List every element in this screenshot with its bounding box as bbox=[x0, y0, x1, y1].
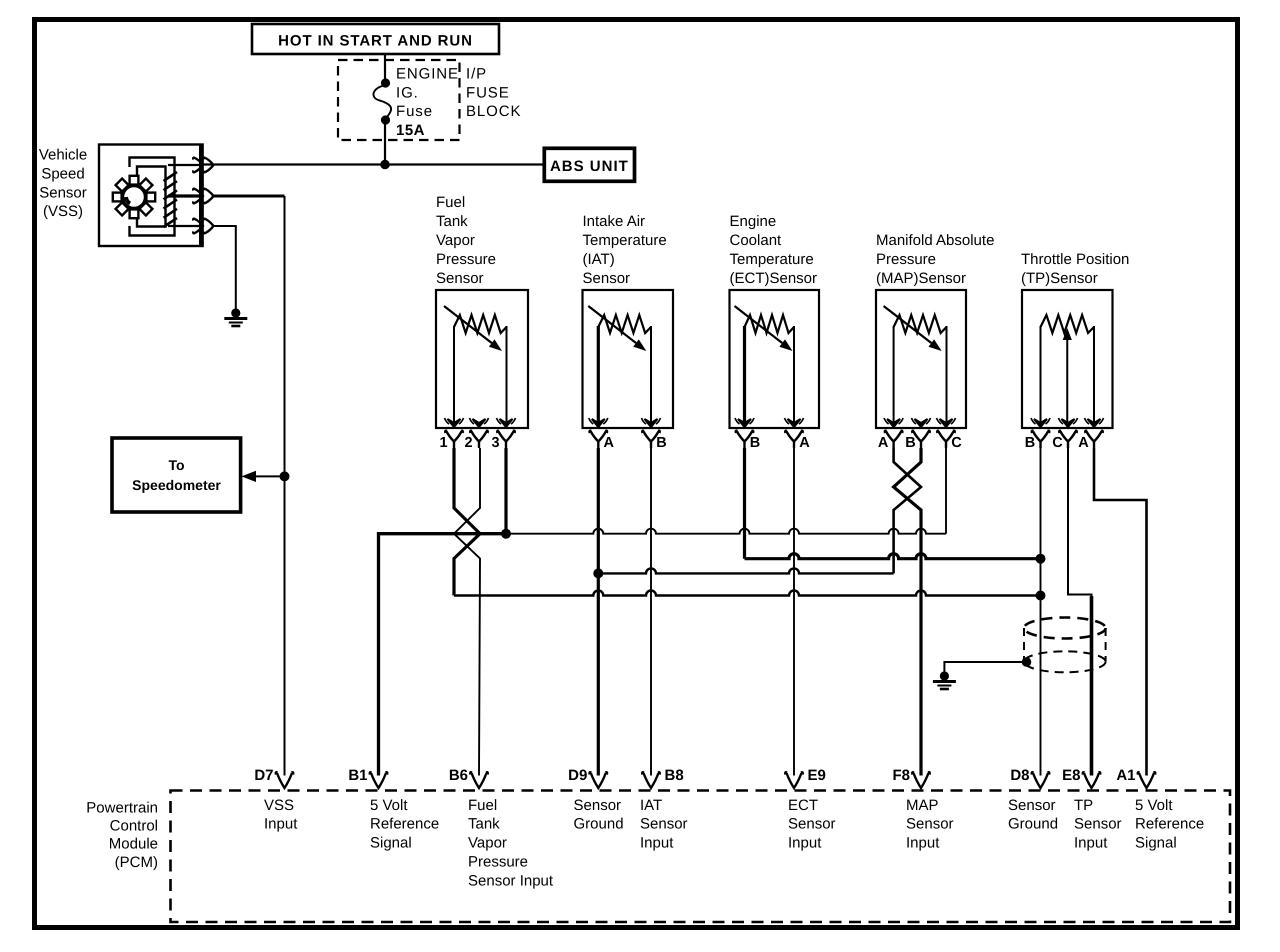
wire IAT pin B to PCM B8 bbox=[650, 448, 652, 776]
svg-text:HOT IN START AND RUN: HOT IN START AND RUN bbox=[278, 32, 473, 49]
svg-text:Engine: Engine bbox=[730, 213, 777, 230]
svg-text:5 Volt: 5 Volt bbox=[370, 797, 408, 814]
shield around TP wires bbox=[1024, 618, 1106, 639]
wire MAP pin B twisted to PCM F8 bbox=[894, 448, 921, 776]
svg-text:ABS UNIT: ABS UNIT bbox=[550, 158, 629, 175]
ground G2 (shield) bbox=[940, 671, 949, 680]
svg-text:Ground: Ground bbox=[1008, 816, 1058, 833]
wire from HOT box to fuse bbox=[384, 54, 386, 81]
manifold absolute pressure (MAP) sensor resistor element bbox=[894, 315, 947, 333]
intake air temperature (IAT) sensor resistor element bbox=[598, 315, 651, 333]
engine coolant temperature (ECT) sensor wiper arrow bbox=[735, 306, 783, 343]
manifold absolute pressure (MAP) sensor box bbox=[876, 290, 966, 428]
svg-text:Control: Control bbox=[110, 818, 158, 835]
wire shield to ground bbox=[944, 662, 1026, 673]
svg-text:Input: Input bbox=[264, 816, 298, 833]
To Speedometer box bbox=[112, 438, 241, 512]
wire IAT pin A to PCM D9 sensor ground bbox=[597, 448, 600, 776]
svg-text:Input: Input bbox=[1074, 835, 1108, 852]
throttle position (TP) sensor wiper arrow bbox=[1066, 340, 1068, 427]
manifold absolute pressure (MAP) sensor wiper arrow bbox=[884, 306, 932, 343]
node shield drain bbox=[1022, 657, 1032, 667]
intake air temperature (IAT) sensor pin connectors bbox=[592, 419, 605, 427]
wire VSS pin3 to ground bbox=[214, 226, 236, 310]
svg-text:BLOCK: BLOCK bbox=[466, 103, 521, 120]
svg-text:Temperature: Temperature bbox=[583, 232, 667, 249]
svg-text:B: B bbox=[656, 435, 666, 451]
PCM pin D9 connector bbox=[590, 772, 608, 788]
svg-text:I/P: I/P bbox=[466, 66, 487, 83]
powertrain control module (PCM) dashed box bbox=[171, 791, 1231, 923]
svg-text:Sensor: Sensor bbox=[788, 816, 836, 833]
svg-text:B6: B6 bbox=[449, 767, 468, 784]
svg-text:Sensor: Sensor bbox=[583, 270, 631, 287]
engine coolant temperature (ECT) sensor resistor element bbox=[745, 315, 795, 333]
svg-text:Reference: Reference bbox=[370, 816, 439, 833]
svg-text:Ground: Ground bbox=[574, 816, 624, 833]
svg-text:B: B bbox=[1025, 435, 1035, 451]
svg-text:Signal: Signal bbox=[1135, 835, 1177, 852]
wire PCM B1 5 volt reference (bold) bbox=[379, 534, 507, 776]
vehicle speed sensor (VSS) bbox=[99, 145, 203, 247]
svg-text:Sensor: Sensor bbox=[436, 270, 484, 287]
intake air temperature (IAT) sensor wiper arrow bbox=[588, 306, 636, 343]
svg-text:Signal: Signal bbox=[370, 835, 412, 852]
svg-text:Temperature: Temperature bbox=[730, 251, 814, 268]
junction node on VSS wire bbox=[280, 471, 290, 481]
svg-text:Sensor: Sensor bbox=[574, 797, 622, 814]
PCM pin E9 connector bbox=[785, 772, 803, 788]
svg-text:Pressure: Pressure bbox=[468, 854, 528, 871]
engine coolant temperature (ECT) sensor pin connectors bbox=[738, 419, 751, 427]
svg-text:Sensor: Sensor bbox=[1074, 816, 1122, 833]
throttle position (TP) sensor resistor element bbox=[1041, 315, 1095, 333]
svg-text:Input: Input bbox=[788, 835, 822, 852]
svg-text:Input: Input bbox=[906, 835, 940, 852]
PCM pin A1 connector bbox=[1138, 772, 1156, 788]
wire fuel pin3 (5V ref) bbox=[504, 448, 507, 534]
wire fuel pin1 twisted to ground line bbox=[454, 448, 480, 596]
svg-text:F8: F8 bbox=[892, 767, 910, 784]
svg-text:(VSS): (VSS) bbox=[43, 203, 83, 220]
fuel tank vapor pressure sensor pin connectors bbox=[448, 419, 461, 427]
svg-text:Fuel: Fuel bbox=[436, 194, 465, 211]
svg-text:15A: 15A bbox=[396, 122, 425, 139]
svg-text:ENGINE: ENGINE bbox=[396, 66, 459, 83]
PCM pin F8 connector bbox=[912, 772, 930, 788]
arrow into speedometer bbox=[255, 475, 285, 477]
wire fuel ground line to TP-B bbox=[454, 591, 1041, 596]
node IAT A ground junction bbox=[593, 568, 603, 578]
svg-text:A: A bbox=[878, 435, 889, 451]
wire 5V ref line to MAP pin C bbox=[506, 529, 946, 534]
svg-text:(MAP)Sensor: (MAP)Sensor bbox=[876, 270, 966, 287]
svg-text:(TP)Sensor: (TP)Sensor bbox=[1021, 270, 1098, 287]
PCM pin B6 connector bbox=[470, 772, 488, 788]
svg-text:(IAT): (IAT) bbox=[583, 251, 615, 268]
svg-text:Tank: Tank bbox=[468, 816, 500, 833]
svg-text:D8: D8 bbox=[1010, 767, 1029, 784]
wire TP pin B to PCM D8 sensor ground bbox=[1040, 448, 1042, 776]
VSS gear rotor bbox=[120, 183, 149, 212]
I/P fuse block (dashed) bbox=[338, 60, 460, 140]
svg-text:Fuse: Fuse bbox=[396, 103, 433, 120]
engine coolant temperature (ECT) sensor box bbox=[730, 290, 820, 428]
svg-text:A1: A1 bbox=[1116, 767, 1135, 784]
svg-text:Fuel: Fuel bbox=[468, 797, 497, 814]
label box HOT IN START AND RUN bbox=[252, 24, 499, 54]
svg-text:3: 3 bbox=[491, 435, 499, 451]
PCM pin D7 connector bbox=[276, 772, 294, 788]
svg-text:5 Volt: 5 Volt bbox=[1135, 797, 1173, 814]
fuel tank vapor pressure sensor resistor element bbox=[454, 315, 507, 333]
svg-text:E8: E8 bbox=[1062, 767, 1080, 784]
svg-text:TP: TP bbox=[1074, 797, 1093, 814]
fuel tank vapor pressure sensor box bbox=[436, 290, 528, 428]
svg-text:Vapor: Vapor bbox=[468, 835, 507, 852]
junction fuse/ABS node bbox=[380, 160, 390, 170]
wire ground line ECT-B to TP-B bbox=[745, 554, 1041, 559]
wire TP pin A to PCM A1 5 volt reference bbox=[1094, 448, 1147, 776]
svg-text:E9: E9 bbox=[808, 767, 826, 784]
wire ECT pin A to PCM E9 bbox=[793, 448, 795, 776]
PCM pin D8 connector bbox=[1032, 772, 1050, 788]
VSS pin connectors bbox=[168, 164, 203, 166]
wire VSS pin2 to PCM D7 bbox=[214, 195, 285, 198]
svg-text:D9: D9 bbox=[568, 767, 587, 784]
PCM pin B8 connector bbox=[642, 772, 660, 788]
svg-text:Speedometer: Speedometer bbox=[132, 477, 221, 493]
svg-text:B: B bbox=[905, 435, 915, 451]
fuse ENGINE IG. Fuse 15A bbox=[381, 78, 390, 87]
throttle position (TP) sensor box bbox=[1022, 290, 1113, 428]
svg-text:Tank: Tank bbox=[436, 213, 468, 230]
wire TP pin C to PCM E8 bbox=[1068, 448, 1092, 598]
node ground line / TP-B bbox=[1036, 554, 1046, 564]
svg-text:Sensor Input: Sensor Input bbox=[468, 872, 554, 889]
svg-text:2: 2 bbox=[464, 435, 472, 451]
svg-text:Pressure: Pressure bbox=[876, 251, 936, 268]
svg-text:A: A bbox=[1078, 435, 1089, 451]
svg-text:(PCM): (PCM) bbox=[115, 854, 158, 871]
svg-text:A: A bbox=[799, 435, 810, 451]
svg-text:Sensor: Sensor bbox=[640, 816, 688, 833]
svg-text:C: C bbox=[1052, 435, 1063, 451]
svg-text:Coolant: Coolant bbox=[730, 232, 783, 249]
svg-text:Manifold Absolute: Manifold Absolute bbox=[876, 232, 994, 249]
wire ECT pin B to ground line bbox=[743, 448, 746, 559]
wire ground line IAT-A to MAP-A bbox=[598, 568, 893, 573]
svg-text:B8: B8 bbox=[665, 767, 684, 784]
svg-text:IG.: IG. bbox=[396, 85, 419, 102]
VSS stator brackets bbox=[130, 158, 175, 236]
svg-text:Module: Module bbox=[109, 836, 158, 853]
wire fuel pin2 twisted to PCM B6 bbox=[454, 448, 480, 776]
svg-text:ECT: ECT bbox=[788, 797, 818, 814]
wire VSS pin1 to ABS unit with junction bbox=[203, 163, 544, 165]
svg-text:C: C bbox=[951, 435, 962, 451]
ABS UNIT box bbox=[544, 148, 634, 181]
svg-text:To: To bbox=[168, 457, 184, 473]
svg-text:A: A bbox=[604, 435, 615, 451]
svg-text:Vapor: Vapor bbox=[436, 232, 475, 249]
svg-text:Pressure: Pressure bbox=[436, 251, 496, 268]
svg-text:IAT: IAT bbox=[640, 797, 662, 814]
svg-text:Sensor: Sensor bbox=[1008, 797, 1056, 814]
svg-text:Intake Air: Intake Air bbox=[583, 213, 646, 230]
svg-text:Powertrain: Powertrain bbox=[86, 800, 158, 817]
svg-text:Reference: Reference bbox=[1135, 816, 1204, 833]
node fuel ground line / TP-B bbox=[1036, 591, 1046, 601]
fuel tank vapor pressure sensor wiper arrow bbox=[444, 306, 492, 343]
VSS coil hatching bbox=[164, 172, 178, 227]
svg-text:D7: D7 bbox=[254, 767, 273, 784]
svg-text:(ECT)Sensor: (ECT)Sensor bbox=[730, 270, 818, 287]
svg-text:Throttle Position: Throttle Position bbox=[1021, 251, 1129, 268]
PCM pin B1 connector bbox=[370, 772, 388, 788]
svg-text:Sensor: Sensor bbox=[39, 185, 87, 202]
PCM pin E8 connector bbox=[1083, 772, 1101, 788]
svg-text:Input: Input bbox=[640, 835, 674, 852]
svg-text:VSS: VSS bbox=[264, 797, 294, 814]
svg-text:B1: B1 bbox=[348, 767, 367, 784]
throttle position (TP) sensor pin connectors bbox=[1034, 419, 1047, 427]
svg-text:MAP: MAP bbox=[906, 797, 939, 814]
ground G1 (VSS) bbox=[231, 308, 240, 317]
svg-text:Vehicle: Vehicle bbox=[39, 147, 87, 164]
wire MAP pin A twisted to ground line bbox=[894, 448, 921, 573]
svg-text:Sensor: Sensor bbox=[906, 816, 954, 833]
svg-text:FUSE: FUSE bbox=[466, 85, 510, 102]
svg-text:Speed: Speed bbox=[41, 166, 84, 183]
svg-text:B: B bbox=[750, 435, 760, 451]
intake air temperature (IAT) sensor box bbox=[583, 290, 674, 428]
svg-text:1: 1 bbox=[439, 435, 447, 451]
manifold absolute pressure (MAP) sensor pin connectors bbox=[887, 419, 900, 427]
